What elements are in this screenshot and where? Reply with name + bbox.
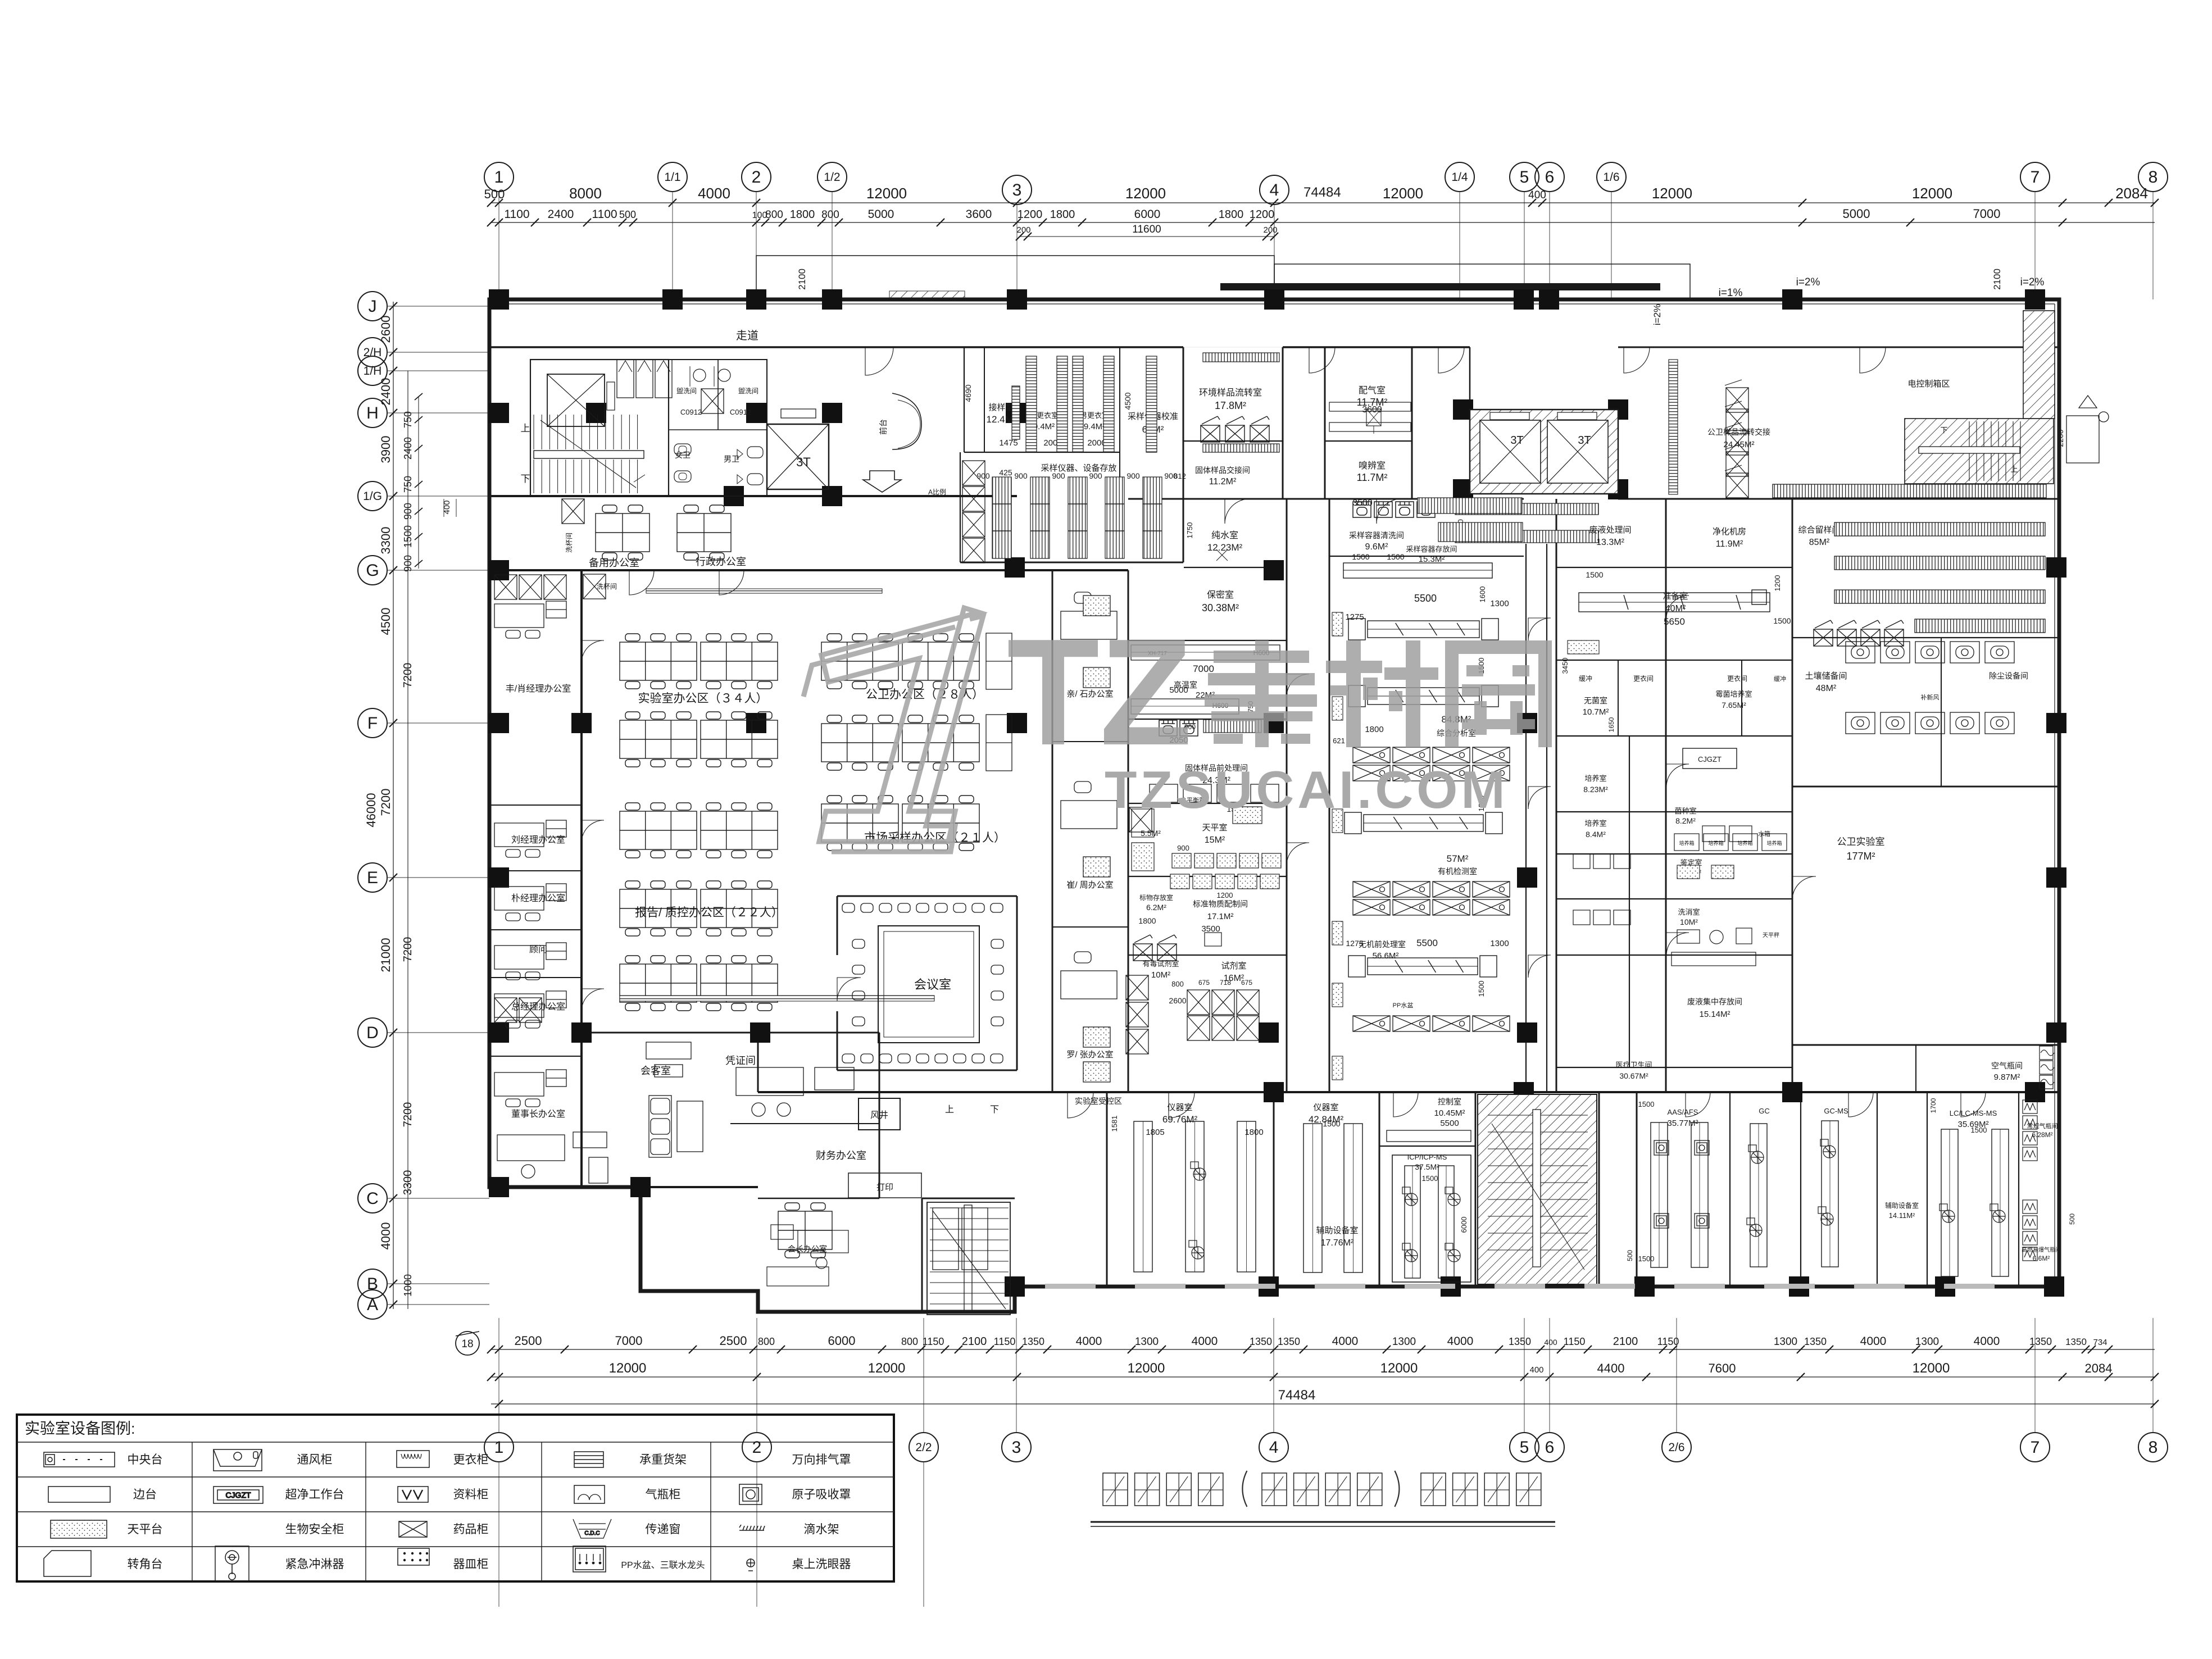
svg-text:仪器室: 仪器室 <box>1167 1103 1192 1112</box>
svg-text:C: C <box>366 1189 379 1208</box>
svg-text:1/4: 1/4 <box>1451 171 1468 184</box>
svg-text:3600: 3600 <box>966 208 992 221</box>
svg-text:培养箱: 培养箱 <box>1708 840 1723 846</box>
svg-text:2: 2 <box>752 168 761 187</box>
svg-text:800: 800 <box>901 1336 918 1347</box>
svg-text:1350: 1350 <box>1250 1336 1272 1347</box>
svg-text:医疗卫生间: 医疗卫生间 <box>1615 1061 1652 1069</box>
svg-text:1500: 1500 <box>1387 552 1404 561</box>
svg-text:1581: 1581 <box>1110 1116 1119 1132</box>
svg-text:i=2%: i=2% <box>1796 276 1820 288</box>
corridor racks below elevators <box>1455 503 1598 515</box>
entrance arrow <box>863 471 901 492</box>
svg-text:废液处理间: 废液处理间 <box>1589 525 1631 535</box>
svg-text:1100: 1100 <box>592 208 617 221</box>
svg-text:5: 5 <box>1520 168 1529 187</box>
legend table 实验室设备图例 <box>17 1415 894 1581</box>
svg-text:1300: 1300 <box>1490 939 1509 948</box>
svg-text:8000: 8000 <box>569 185 602 202</box>
svg-text:C0912: C0912 <box>680 408 702 416</box>
wash sink by G line <box>583 574 606 599</box>
elevator 3T top-left <box>767 424 829 489</box>
svg-text:1/G: 1/G <box>363 490 382 503</box>
svg-text:接样室: 接样室 <box>988 403 1014 412</box>
top dimension lines <box>484 185 2159 325</box>
svg-text:i=1%: i=1% <box>1719 287 1743 299</box>
svg-text:辅助设备室: 辅助设备室 <box>1316 1226 1358 1235</box>
svg-text:30.38M²: 30.38M² <box>1202 602 1239 613</box>
svg-text:4500: 4500 <box>1123 392 1132 410</box>
svg-text:1805: 1805 <box>1146 1128 1164 1137</box>
svg-text:标准物质配制间: 标准物质配制间 <box>1193 899 1248 908</box>
svg-text:霉菌培养室: 霉菌培养室 <box>1715 690 1752 698</box>
svg-text:会长办公室: 会长办公室 <box>788 1244 827 1253</box>
svg-text:7000: 7000 <box>1973 207 2001 221</box>
svg-text:900: 900 <box>1089 471 1102 480</box>
shaft 风井 <box>859 1098 900 1130</box>
windows on bottom wall <box>1045 1284 1995 1289</box>
svg-text:纯水室: 纯水室 <box>1211 530 1238 540</box>
svg-text:会议室: 会议室 <box>914 978 951 992</box>
svg-text:900: 900 <box>402 555 414 572</box>
top grid bubbles <box>484 162 2168 299</box>
svg-text:培养箱: 培养箱 <box>1737 840 1752 846</box>
svg-text:621: 621 <box>1333 737 1345 745</box>
svg-text:天平室: 天平室 <box>1202 823 1227 833</box>
svg-text:缓冲: 缓冲 <box>1579 674 1592 683</box>
svg-text:4000: 4000 <box>1192 1335 1218 1348</box>
svg-text:1150: 1150 <box>923 1336 944 1347</box>
svg-text:试剂室: 试剂室 <box>1221 961 1246 971</box>
svg-text:刘经理办公室: 刘经理办公室 <box>511 835 565 845</box>
svg-text:30.67M²: 30.67M² <box>1619 1071 1648 1080</box>
svg-text:CJGZT: CJGZT <box>1698 755 1722 763</box>
svg-text:13.3M²: 13.3M² <box>1596 538 1624 547</box>
svg-text:天平台: 天平台 <box>128 1523 163 1536</box>
svg-text:洗杯间: 洗杯间 <box>565 533 573 553</box>
svg-text:洗消室: 洗消室 <box>1678 908 1700 916</box>
svg-text:废液集中存放间: 废液集中存放间 <box>1687 997 1742 1006</box>
svg-text:上: 上 <box>521 423 530 434</box>
svg-text:17.1M²: 17.1M² <box>1207 912 1234 921</box>
svg-text:固体样品交接间: 固体样品交接间 <box>1195 466 1250 475</box>
svg-text:1/2: 1/2 <box>824 171 840 184</box>
svg-text:3T: 3T <box>1578 434 1591 447</box>
svg-text:董事长办公室: 董事长办公室 <box>511 1109 565 1119</box>
svg-text:6: 6 <box>1545 1438 1555 1457</box>
svg-text:3T: 3T <box>796 455 811 469</box>
svg-text:5500: 5500 <box>1416 938 1438 948</box>
svg-text:罗/ 张办公室: 罗/ 张办公室 <box>1066 1050 1113 1060</box>
svg-text:报告/ 质控办公区（２２人）: 报告/ 质控办公区（２２人） <box>635 906 783 919</box>
svg-text:500: 500 <box>619 209 636 220</box>
svg-text:1800: 1800 <box>790 208 815 221</box>
svg-text:无菌室: 无菌室 <box>1584 696 1607 705</box>
svg-text:12000: 12000 <box>1913 1361 1950 1376</box>
svg-text:1300: 1300 <box>1774 1336 1797 1348</box>
stair core top-left <box>530 360 672 496</box>
svg-text:PP水盆、三联水龙头: PP水盆、三联水龙头 <box>621 1560 705 1570</box>
svg-text:常规气瓶间: 常规气瓶间 <box>2027 1122 2058 1130</box>
svg-text:12000: 12000 <box>1128 1361 1165 1376</box>
svg-text:1300: 1300 <box>1135 1336 1159 1348</box>
toilets <box>669 360 767 496</box>
svg-text:培养室: 培养室 <box>1584 774 1606 783</box>
svg-text:3300: 3300 <box>402 1170 414 1196</box>
svg-text:土壤储备间: 土壤储备间 <box>1805 671 1847 681</box>
machine closets <box>617 360 634 398</box>
svg-text:菌种室: 菌种室 <box>1674 807 1696 815</box>
chairman desk <box>497 1132 608 1183</box>
svg-text:7200: 7200 <box>379 789 393 816</box>
svg-text:11.9M²: 11.9M² <box>1716 539 1743 549</box>
svg-text:1500: 1500 <box>1352 552 1369 561</box>
svg-text:洗杯间: 洗杯间 <box>597 583 617 590</box>
svg-text:配气室: 配气室 <box>1359 385 1386 396</box>
svg-text:900: 900 <box>1014 471 1028 480</box>
svg-text:通风柜: 通风柜 <box>297 1453 333 1466</box>
svg-text:1150: 1150 <box>1657 1336 1679 1347</box>
svg-text:2/6: 2/6 <box>1668 1441 1684 1454</box>
svg-text:2400: 2400 <box>402 437 414 460</box>
svg-text:12000: 12000 <box>868 1361 906 1376</box>
svg-text:辅助设备室: 辅助设备室 <box>1885 1201 1919 1210</box>
svg-text:男卫: 男卫 <box>724 454 739 463</box>
svg-text:2100: 2100 <box>797 269 807 290</box>
bottom dimension lines <box>456 1331 2159 1408</box>
watermark text TZ素材网 <box>1007 608 1552 777</box>
svg-text:1275: 1275 <box>1345 612 1364 622</box>
svg-text:500: 500 <box>1626 1250 1634 1261</box>
svg-text:i=2%: i=2% <box>2020 276 2045 288</box>
svg-text:实验室受控区: 实验室受控区 <box>1075 1097 1122 1106</box>
svg-text:F: F <box>367 714 378 733</box>
svg-text:10M²: 10M² <box>1151 970 1170 980</box>
svg-text:8: 8 <box>2149 1438 2158 1457</box>
west wall cabinets <box>1332 612 1343 636</box>
svg-text:21000: 21000 <box>379 938 393 972</box>
svg-text:培养室: 培养室 <box>1584 819 1606 828</box>
svg-text:1800: 1800 <box>1244 1128 1263 1137</box>
svg-text:800: 800 <box>1171 980 1184 988</box>
svg-text:4000: 4000 <box>1860 1335 1887 1348</box>
svg-text:11.2M²: 11.2M² <box>1209 477 1237 487</box>
svg-text:1100: 1100 <box>504 208 529 221</box>
svg-text:实验室办公区（３４人）: 实验室办公区（３４人） <box>638 692 768 705</box>
svg-text:718: 718 <box>1220 979 1231 987</box>
svg-text:3: 3 <box>1012 181 1022 199</box>
svg-text:承重货架: 承重货架 <box>639 1453 687 1466</box>
svg-text:器皿柜: 器皿柜 <box>453 1558 489 1571</box>
bottom grid bubbles <box>484 1318 2168 1607</box>
svg-text:12000: 12000 <box>609 1361 647 1376</box>
long low cabinet under office zone <box>620 996 934 1001</box>
svg-text:5.5M²: 5.5M² <box>1141 829 1161 838</box>
svg-text:C0912: C0912 <box>730 408 751 416</box>
svg-text:5: 5 <box>1520 1438 1529 1457</box>
manager offices furniture <box>494 575 566 1107</box>
svg-text:走道: 走道 <box>736 329 758 342</box>
svg-text:3450: 3450 <box>1561 658 1569 674</box>
svg-text:2084: 2084 <box>2115 185 2148 202</box>
svg-text:675: 675 <box>1241 979 1252 987</box>
svg-text:资料柜: 资料柜 <box>453 1488 489 1501</box>
H600 benches 高温室 <box>1131 645 1280 660</box>
svg-text:2600: 2600 <box>1169 996 1186 1005</box>
svg-text:750: 750 <box>402 411 414 428</box>
svg-text:上: 上 <box>2010 465 2018 474</box>
svg-text:15M²: 15M² <box>1205 835 1225 845</box>
svg-text:公卫办公区（２８人）: 公卫办公区（２８人） <box>866 688 984 701</box>
svg-text:800: 800 <box>821 209 839 221</box>
svg-text:8.4M²: 8.4M² <box>1586 830 1606 839</box>
svg-text:电控制箱区: 电控制箱区 <box>1907 379 1950 389</box>
svg-text:PP水盆: PP水盆 <box>1393 1001 1414 1009</box>
svg-text:1800: 1800 <box>1365 725 1383 734</box>
svg-text:750: 750 <box>402 476 414 493</box>
svg-text:1275: 1275 <box>1346 939 1363 948</box>
svg-text:4690: 4690 <box>964 384 973 402</box>
svg-text:1: 1 <box>494 1438 504 1457</box>
svg-text:800: 800 <box>758 1336 775 1347</box>
svg-text:更衣间: 更衣间 <box>1727 674 1747 683</box>
svg-text:4: 4 <box>1269 1438 1279 1457</box>
svg-text:1700: 1700 <box>1929 1098 1937 1113</box>
svg-text:2100: 2100 <box>962 1335 987 1348</box>
svg-text:1150: 1150 <box>994 1336 1016 1347</box>
svg-text:D: D <box>366 1024 379 1042</box>
svg-text:17.76M²: 17.76M² <box>1321 1238 1354 1248</box>
svg-text:12000: 12000 <box>1125 185 1166 202</box>
svg-text:综合留样间: 综合留样间 <box>1798 525 1840 535</box>
svg-text:400: 400 <box>1544 1338 1557 1347</box>
svg-text:培养箱: 培养箱 <box>1766 840 1782 846</box>
svg-text:900: 900 <box>1127 471 1140 480</box>
svg-text:1500: 1500 <box>1638 1255 1655 1263</box>
svg-text:74484: 74484 <box>1303 185 1341 200</box>
svg-text:5500: 5500 <box>1440 1119 1459 1128</box>
small rooms below stair (备用/行政办公室) <box>596 505 649 560</box>
svg-text:除尘设备间: 除尘设备间 <box>1989 671 2028 680</box>
svg-text:超净工作台: 超净工作台 <box>285 1488 344 1501</box>
svg-text:1800: 1800 <box>1219 208 1244 221</box>
svg-text:E: E <box>367 869 378 887</box>
svg-text:盥洗间: 盥洗间 <box>738 387 758 395</box>
svg-text:原子吸收罩: 原子吸收罩 <box>792 1488 851 1501</box>
svg-text:7.65M²: 7.65M² <box>1722 701 1746 710</box>
svg-text:上: 上 <box>945 1105 954 1115</box>
svg-text:i=2%: i=2% <box>1652 304 1663 325</box>
svg-text:6.28M²: 6.28M² <box>2032 1131 2052 1139</box>
svg-text:实验室设备图例:: 实验室设备图例: <box>25 1420 135 1437</box>
svg-text:5000: 5000 <box>1843 207 1870 221</box>
svg-text:3T: 3T <box>1510 434 1523 447</box>
svg-text:7200: 7200 <box>402 1102 414 1128</box>
svg-text:7000: 7000 <box>1193 663 1214 674</box>
door arcs <box>582 347 1986 1118</box>
svg-text:2/2: 2/2 <box>915 1441 932 1454</box>
svg-text:1500: 1500 <box>1422 1174 1438 1183</box>
svg-text:滴水架: 滴水架 <box>804 1523 839 1536</box>
svg-text:4: 4 <box>1270 181 1279 199</box>
svg-text:1350: 1350 <box>2065 1337 2087 1347</box>
svg-text:900: 900 <box>1177 844 1189 852</box>
svg-text:37.5M²: 37.5M² <box>1415 1162 1439 1171</box>
svg-text:10.45M²: 10.45M² <box>1434 1108 1465 1118</box>
svg-text:6000: 6000 <box>1460 1217 1468 1233</box>
svg-text:1650: 1650 <box>1607 717 1615 732</box>
svg-text:5500: 5500 <box>1414 593 1437 604</box>
svg-text:7: 7 <box>2031 168 2040 187</box>
svg-text:400: 400 <box>1528 189 1546 201</box>
svg-text:56.6M²: 56.6M² <box>1373 951 1399 961</box>
svg-text:下: 下 <box>521 474 530 484</box>
svg-text:5650: 5650 <box>1664 616 1685 627</box>
svg-text:400: 400 <box>1529 1365 1543 1375</box>
svg-text:A比例: A比例 <box>928 488 946 496</box>
svg-text:1500: 1500 <box>1323 1119 1340 1128</box>
svg-text:8.23M²: 8.23M² <box>1583 785 1608 794</box>
open office desk clusters right zone <box>821 634 898 689</box>
svg-text:顾问: 顾问 <box>529 944 547 955</box>
svg-text:177M²: 177M² <box>1846 851 1875 862</box>
svg-text:1600: 1600 <box>1478 587 1487 603</box>
svg-text:9.4M²: 9.4M² <box>1084 422 1105 431</box>
svg-text:12.23M²: 12.23M² <box>1207 542 1243 553</box>
svg-text:3: 3 <box>1012 1438 1021 1457</box>
bottom-left stair <box>927 1202 1010 1315</box>
svg-text:35.77M²: 35.77M² <box>1667 1119 1698 1128</box>
svg-text:11.7M²: 11.7M² <box>1357 472 1388 483</box>
svg-text:行政办公室: 行政办公室 <box>696 556 746 567</box>
svg-text:3600: 3600 <box>1362 405 1382 415</box>
svg-text:6000: 6000 <box>828 1334 856 1348</box>
svg-text:5000: 5000 <box>868 208 894 221</box>
svg-text:药品柜: 药品柜 <box>453 1523 489 1536</box>
svg-text:净化机房: 净化机房 <box>1713 527 1746 537</box>
svg-text:800: 800 <box>765 209 783 221</box>
svg-text:500: 500 <box>2068 1213 2076 1225</box>
open office desk clusters left zone <box>620 634 697 689</box>
svg-text:TZSUCAI.COM: TZSUCAI.COM <box>1105 760 1509 819</box>
svg-text:10M²: 10M² <box>1680 917 1698 926</box>
svg-text:9.6M²: 9.6M² <box>1365 542 1389 552</box>
综合分析室 84.8 <box>1343 563 1492 578</box>
svg-text:74484: 74484 <box>1278 1388 1316 1403</box>
svg-text:1150: 1150 <box>1564 1336 1586 1347</box>
svg-text:C.D.C: C.D.C <box>584 1530 599 1537</box>
svg-text:4400: 4400 <box>1597 1361 1625 1375</box>
svg-text:4000: 4000 <box>698 185 730 202</box>
svg-text:总经理办公室: 总经理办公室 <box>511 1002 565 1012</box>
incubator boxes <box>1674 834 1699 851</box>
left grid bubbles <box>358 292 489 1319</box>
svg-text:11600: 11600 <box>1132 224 1161 235</box>
svg-text:培养箱: 培养箱 <box>1679 840 1694 846</box>
svg-text:18: 18 <box>461 1338 473 1350</box>
svg-text:1500: 1500 <box>1638 1100 1655 1108</box>
svg-text:1/6: 1/6 <box>1603 171 1619 184</box>
svg-text:AAS/AFS: AAS/AFS <box>1668 1108 1698 1116</box>
svg-text:打印: 打印 <box>876 1183 893 1192</box>
svg-text:备用办公室: 备用办公室 <box>589 557 639 569</box>
bottom-center stair hatched <box>1478 1094 1597 1284</box>
svg-text:4000: 4000 <box>379 1222 393 1250</box>
svg-text:3900: 3900 <box>379 436 393 463</box>
svg-text:900: 900 <box>1052 471 1065 480</box>
svg-text:200: 200 <box>1263 225 1277 235</box>
svg-text:1300: 1300 <box>1392 1336 1416 1348</box>
extra single desk column <box>986 633 1012 771</box>
svg-text:1/H: 1/H <box>364 365 382 378</box>
svg-text:朴经理办公室: 朴经理办公室 <box>511 893 565 903</box>
svg-text:财务办公室: 财务办公室 <box>816 1150 866 1161</box>
svg-text:7000: 7000 <box>615 1334 643 1348</box>
svg-text:标物存放室: 标物存放室 <box>1139 893 1173 902</box>
svg-text:4000: 4000 <box>1332 1335 1359 1348</box>
svg-text:1800: 1800 <box>1138 916 1156 925</box>
svg-text:A: A <box>367 1296 378 1314</box>
svg-text:12000: 12000 <box>1652 185 1692 202</box>
洗消 fixtures <box>1672 928 1756 966</box>
svg-text:2100: 2100 <box>1992 269 2002 290</box>
svg-text:1200: 1200 <box>1018 208 1043 221</box>
svg-text:6: 6 <box>1545 168 1555 187</box>
svg-text:紧急冲淋器: 紧急冲淋器 <box>285 1558 344 1571</box>
left dimension lines <box>364 302 456 1309</box>
svg-text:边台: 边台 <box>133 1488 157 1501</box>
svg-text:15.14M²: 15.14M² <box>1699 1010 1730 1019</box>
svg-text:1350: 1350 <box>1804 1336 1827 1347</box>
inner face lines of envelope <box>493 303 2055 304</box>
svg-text:7200: 7200 <box>402 937 414 962</box>
svg-text:下: 下 <box>1940 426 1947 434</box>
svg-text:1500: 1500 <box>1773 616 1791 625</box>
drawing title 检测中心（实验室）平面布置图 <box>1103 1471 1541 1507</box>
svg-text:6.2M²: 6.2M² <box>1146 903 1166 912</box>
svg-text:17.8M²: 17.8M² <box>1215 400 1246 411</box>
svg-text:前台: 前台 <box>879 419 888 435</box>
svg-text:2500: 2500 <box>720 1334 747 1348</box>
svg-text:盥洗间: 盥洗间 <box>676 387 697 395</box>
svg-text:嗅辨室: 嗅辨室 <box>1359 461 1386 471</box>
svg-text:采样容器清洗间: 采样容器清洗间 <box>1349 531 1404 540</box>
svg-text:GC: GC <box>1759 1107 1770 1115</box>
svg-text:6000: 6000 <box>1134 208 1161 221</box>
svg-text:1500: 1500 <box>1586 570 1603 579</box>
svg-text:7600: 7600 <box>1709 1361 1736 1375</box>
svg-text:J: J <box>369 297 377 316</box>
svg-text:46000: 46000 <box>364 793 378 827</box>
svg-text:1350: 1350 <box>1278 1336 1300 1347</box>
svg-text:水箱: 水箱 <box>1758 830 1770 838</box>
svg-text:8.2M²: 8.2M² <box>1675 816 1696 825</box>
svg-text:1200: 1200 <box>1250 208 1275 221</box>
svg-text:公卫样品流转交接: 公卫样品流转交接 <box>1707 428 1770 437</box>
svg-text:48M²: 48M² <box>1816 684 1837 693</box>
svg-text:下: 下 <box>990 1105 999 1115</box>
conference room walls <box>837 896 1017 897</box>
svg-text:1/1: 1/1 <box>664 171 680 184</box>
twin elevators 3T <box>1470 410 1618 494</box>
svg-text:保密室: 保密室 <box>1207 590 1234 600</box>
svg-text:公卫实验室: 公卫实验室 <box>1837 837 1885 847</box>
svg-text:更衣间: 更衣间 <box>1633 674 1654 683</box>
svg-text:缓冲: 缓冲 <box>1774 675 1786 683</box>
svg-text:4000: 4000 <box>1447 1335 1474 1348</box>
svg-text:1500: 1500 <box>402 525 414 548</box>
svg-text:1: 1 <box>494 168 504 187</box>
